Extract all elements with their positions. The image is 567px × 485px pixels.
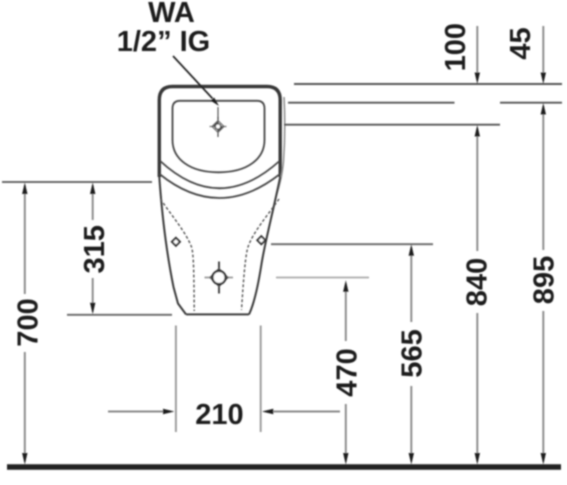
svg-text:840: 840	[462, 258, 494, 306]
urinal outer rim (bowl)	[159, 87, 280, 178]
svg-text:315: 315	[79, 225, 111, 273]
svg-text:210: 210	[195, 399, 243, 431]
svg-text:WA: WA	[148, 0, 195, 29]
ref line 470 level (y=277.5, light)	[276, 277, 369, 279]
dimension 840	[462, 125, 494, 465]
ref line 315 level (y=313.9)	[67, 314, 172, 316]
outlet target symbol	[205, 262, 234, 294]
svg-text:895: 895	[529, 256, 561, 304]
front panel left edge (hidden, dashed)	[161, 199, 195, 311]
body left outer silhouette	[159, 177, 186, 314]
foot bottom edge	[186, 313, 249, 315]
ref line 565 level (y=244.2)	[271, 243, 433, 245]
urinal inner rim and basin U	[173, 101, 265, 173]
ref line 700 level (y=182)	[2, 181, 152, 183]
floor line	[7, 464, 561, 470]
dimension 100	[440, 23, 480, 84]
front panel right edge (hidden, dashed)	[242, 199, 280, 310]
dimension 470	[332, 280, 364, 464]
svg-text:700: 700	[12, 298, 44, 346]
basin outer bulge curve	[160, 161, 279, 188]
dimension 45	[505, 26, 546, 84]
svg-text:45: 45	[505, 27, 537, 59]
dimension 895	[529, 103, 561, 465]
leader arrowhead	[211, 98, 219, 107]
dimension 315	[79, 183, 111, 315]
dimension 565	[397, 244, 429, 464]
svg-text:565: 565	[397, 329, 429, 377]
dimension 700	[12, 183, 44, 465]
bowl right side wall line	[276, 97, 285, 196]
svg-text:100: 100	[440, 23, 472, 71]
extension line 210 left	[175, 326, 177, 433]
mounting hole left	[172, 238, 180, 246]
water inlet target symbol	[210, 107, 227, 137]
svg-text:1/2” IG: 1/2” IG	[117, 26, 211, 58]
mounting hole right	[257, 236, 265, 244]
dimension 210	[108, 399, 340, 431]
ref line B 895 level (y=102.7)	[288, 102, 455, 104]
leader line WA	[173, 56, 213, 99]
body right outer silhouette	[249, 177, 280, 314]
apron bottom arc	[160, 174, 281, 198]
ref line C 840 level (y=124.7)	[284, 124, 500, 126]
svg-text:470: 470	[332, 348, 364, 396]
extension line 210 right	[260, 326, 262, 433]
ref line A rim top (y=84)	[294, 83, 562, 85]
